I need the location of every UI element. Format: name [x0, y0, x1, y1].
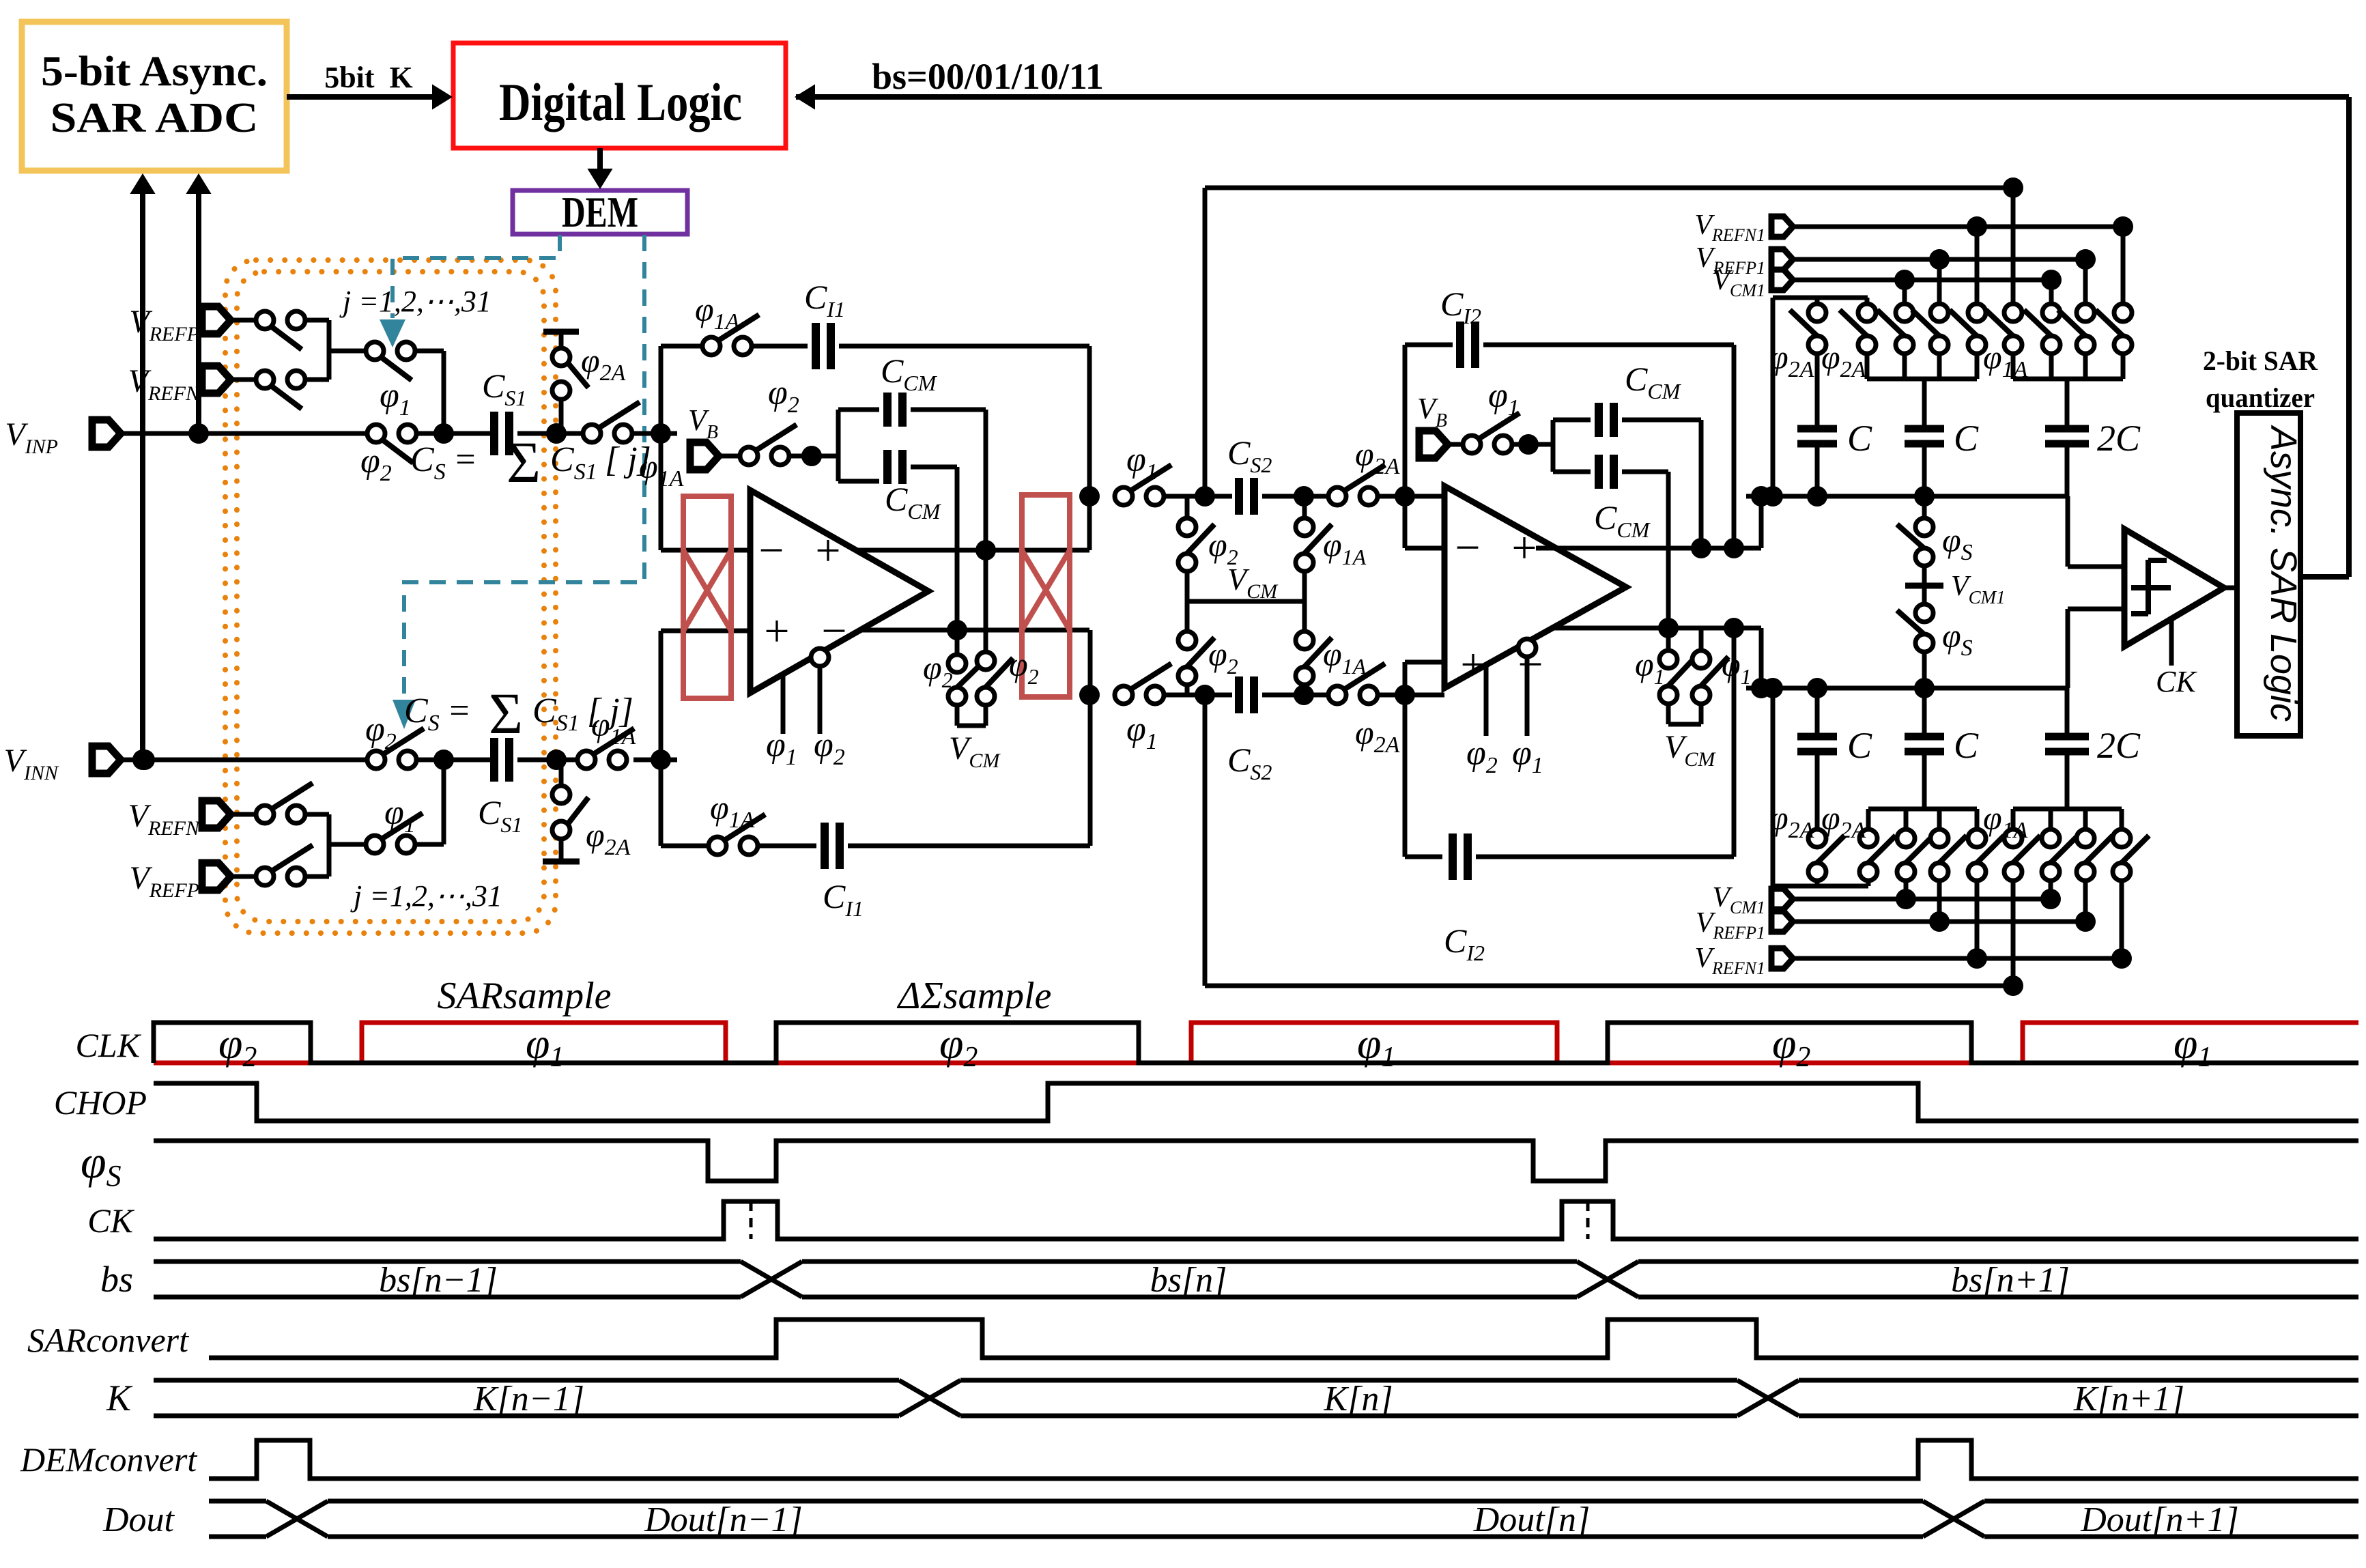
- svg-text:SARconvert: SARconvert: [27, 1321, 189, 1359]
- svg-text:Dout: Dout: [102, 1500, 175, 1539]
- svg-text:[ j]: [ j]: [605, 440, 651, 479]
- svg-text:2C: 2C: [2097, 725, 2141, 766]
- svg-text:bs[n+1]: bs[n+1]: [1951, 1261, 2070, 1300]
- svg-text:quantizer: quantizer: [2206, 382, 2315, 413]
- svg-text:Dout[n−1]: Dout[n−1]: [644, 1500, 803, 1539]
- svg-text:C: C: [1847, 418, 1872, 459]
- svg-text:Dout[n+1]: Dout[n+1]: [2080, 1500, 2239, 1539]
- svg-text:CK: CK: [87, 1201, 134, 1240]
- svg-text:bs: bs: [100, 1259, 133, 1300]
- svg-text:−: −: [758, 526, 784, 575]
- svg-text:2-bit SAR: 2-bit SAR: [2203, 345, 2318, 376]
- svg-text:CHOP: CHOP: [54, 1083, 147, 1122]
- svg-text:=: =: [453, 440, 477, 479]
- svg-text:+: +: [1460, 640, 1485, 689]
- svg-text:+: +: [815, 526, 840, 575]
- svg-text:DEM: DEM: [562, 188, 638, 236]
- svg-text:C: C: [1847, 725, 1872, 766]
- svg-text:K[n]: K[n]: [1323, 1380, 1393, 1419]
- svg-text:C: C: [1954, 418, 1979, 459]
- svg-text:CLK: CLK: [75, 1026, 141, 1064]
- svg-text:bs=00/01/10/11: bs=00/01/10/11: [872, 56, 1104, 97]
- svg-text:Async. SAR Logic: Async. SAR Logic: [2263, 425, 2304, 722]
- svg-text:5bit K: 5bit K: [324, 61, 413, 94]
- svg-text:Σ: Σ: [507, 429, 541, 495]
- svg-text:j =1,2,⋯,31: j =1,2,⋯,31: [350, 879, 502, 913]
- svg-text:−: −: [1455, 523, 1480, 573]
- svg-text:=: =: [447, 692, 471, 730]
- svg-text:Digital Logic: Digital Logic: [499, 72, 742, 132]
- svg-text:K[n+1]: K[n+1]: [2073, 1380, 2184, 1419]
- svg-text:bs[n]: bs[n]: [1150, 1261, 1227, 1300]
- svg-text:Dout[n]: Dout[n]: [1473, 1500, 1590, 1539]
- svg-text:Σ: Σ: [489, 681, 523, 746]
- svg-text:+: +: [1511, 523, 1537, 573]
- svg-text:ΔΣsample: ΔΣsample: [897, 975, 1052, 1017]
- svg-text:[ j]: [ j]: [587, 692, 633, 730]
- svg-text:bs[n−1]: bs[n−1]: [379, 1261, 498, 1300]
- svg-text:CK: CK: [2156, 665, 2197, 698]
- svg-text:K: K: [106, 1378, 133, 1419]
- svg-text:j =1,2,⋯,31: j =1,2,⋯,31: [339, 285, 491, 318]
- svg-text:SARsample: SARsample: [437, 975, 611, 1017]
- svg-text:K[n−1]: K[n−1]: [473, 1380, 584, 1419]
- svg-text:2C: 2C: [2097, 418, 2141, 459]
- svg-text:5-bit Async.: 5-bit Async.: [41, 48, 268, 95]
- svg-text:C: C: [1954, 725, 1979, 766]
- svg-text:+: +: [764, 606, 789, 656]
- svg-text:SAR ADC: SAR ADC: [51, 95, 259, 141]
- svg-text:DEMconvert: DEMconvert: [20, 1440, 197, 1479]
